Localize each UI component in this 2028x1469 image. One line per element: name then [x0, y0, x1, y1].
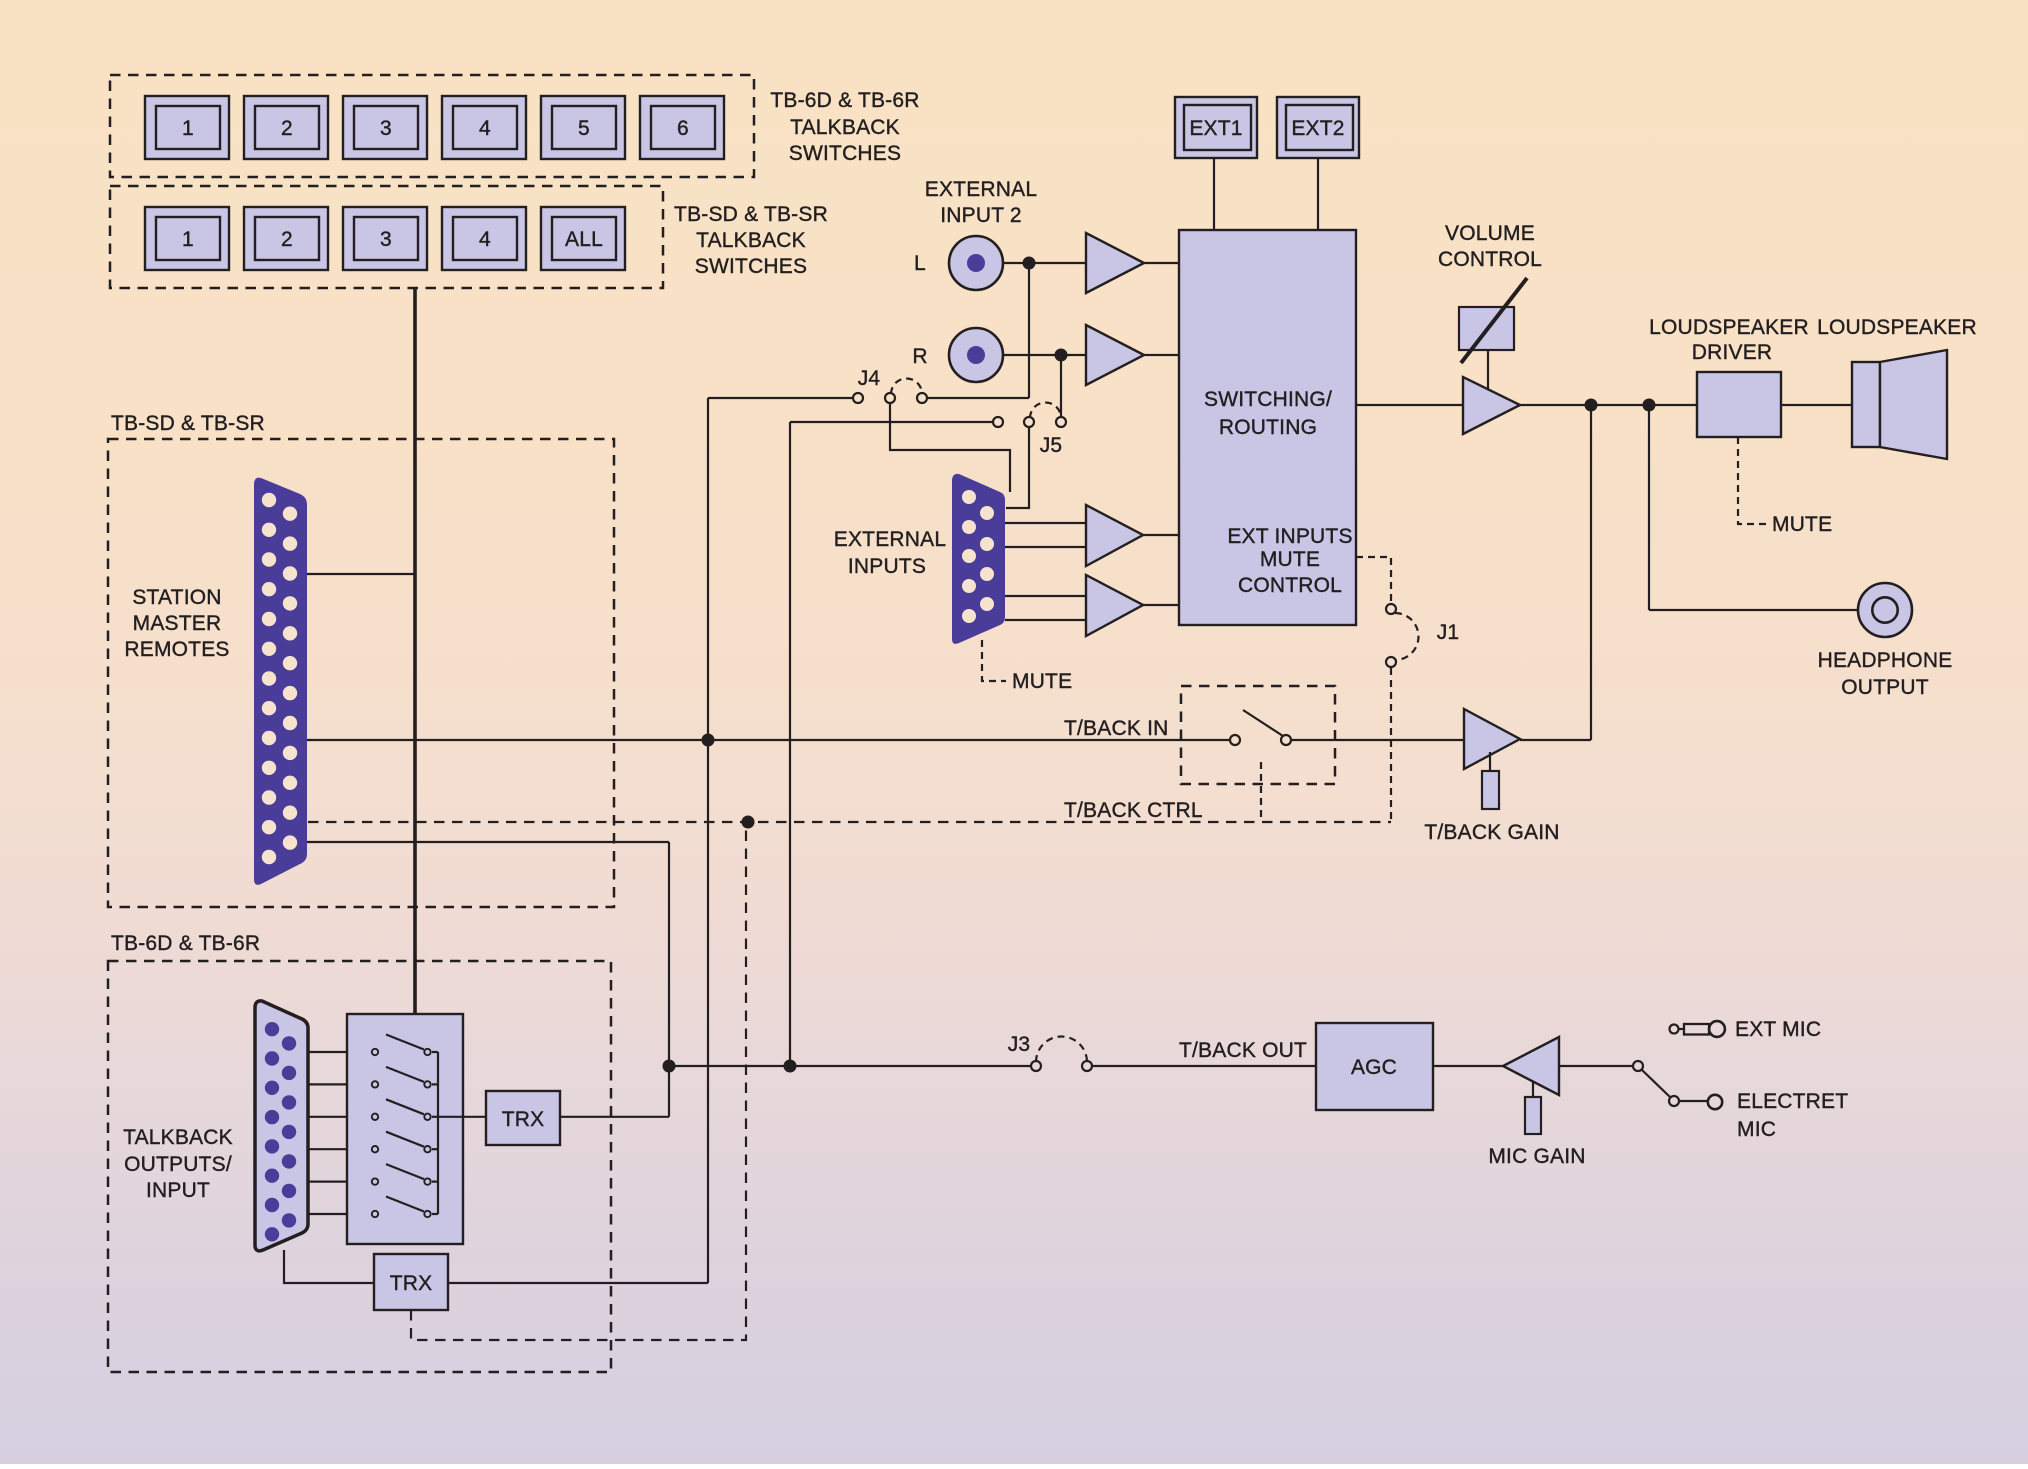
svg-text:MUTE: MUTE — [1012, 670, 1072, 693]
svg-text:EXT2: EXT2 — [1291, 117, 1344, 140]
svg-text:SWITCHES: SWITCHES — [695, 255, 807, 278]
svg-text:T/BACK CTRL: T/BACK CTRL — [1064, 799, 1203, 822]
svg-text:J4: J4 — [858, 367, 881, 390]
svg-text:MUTE: MUTE — [1772, 513, 1832, 536]
svg-text:CONTROL: CONTROL — [1438, 248, 1542, 271]
svg-text:MIC GAIN: MIC GAIN — [1488, 1145, 1585, 1168]
svg-text:4: 4 — [479, 228, 491, 251]
svg-text:LOUDSPEAKER: LOUDSPEAKER — [1817, 316, 1977, 339]
svg-text:TALKBACK: TALKBACK — [790, 116, 900, 139]
svg-text:MIC: MIC — [1737, 1118, 1776, 1141]
svg-text:TALKBACK: TALKBACK — [123, 1126, 233, 1149]
svg-text:J5: J5 — [1040, 434, 1063, 457]
svg-text:EXTERNAL: EXTERNAL — [834, 528, 946, 551]
svg-text:CONTROL: CONTROL — [1238, 574, 1342, 597]
svg-text:4: 4 — [479, 117, 491, 140]
svg-text:INPUT 2: INPUT 2 — [940, 204, 1022, 227]
svg-text:1: 1 — [182, 228, 194, 251]
svg-text:STATION: STATION — [132, 586, 221, 609]
svg-text:ELECTRET: ELECTRET — [1737, 1090, 1848, 1113]
svg-text:TB-6D & TB-6R: TB-6D & TB-6R — [111, 932, 260, 955]
svg-text:TALKBACK: TALKBACK — [696, 229, 806, 252]
svg-text:5: 5 — [578, 117, 590, 140]
svg-text:TRX: TRX — [502, 1108, 545, 1131]
svg-text:SWITCHING/: SWITCHING/ — [1204, 388, 1332, 411]
svg-text:2: 2 — [281, 228, 293, 251]
svg-text:EXT1: EXT1 — [1189, 117, 1242, 140]
svg-text:MASTER: MASTER — [133, 612, 222, 635]
svg-text:T/BACK IN: T/BACK IN — [1064, 717, 1168, 740]
svg-text:AGC: AGC — [1351, 1056, 1397, 1079]
svg-text:EXTERNAL: EXTERNAL — [925, 178, 1037, 201]
svg-text:J1: J1 — [1437, 621, 1460, 644]
svg-text:3: 3 — [380, 117, 392, 140]
svg-text:T/BACK OUT: T/BACK OUT — [1179, 1039, 1307, 1062]
svg-text:MUTE: MUTE — [1260, 548, 1320, 571]
svg-text:SWITCHES: SWITCHES — [789, 142, 901, 165]
svg-text:T/BACK GAIN: T/BACK GAIN — [1424, 821, 1559, 844]
svg-text:OUTPUTS/: OUTPUTS/ — [124, 1153, 232, 1176]
svg-text:ROUTING: ROUTING — [1219, 416, 1317, 439]
svg-text:TB-6D & TB-6R: TB-6D & TB-6R — [770, 89, 919, 112]
svg-text:J3: J3 — [1008, 1033, 1031, 1056]
svg-text:DRIVER: DRIVER — [1692, 341, 1773, 364]
svg-text:OUTPUT: OUTPUT — [1841, 676, 1929, 699]
svg-text:TB-SD & TB-SR: TB-SD & TB-SR — [111, 412, 265, 435]
svg-text:1: 1 — [182, 117, 194, 140]
svg-text:EXT INPUTS: EXT INPUTS — [1227, 525, 1352, 548]
svg-text:3: 3 — [380, 228, 392, 251]
svg-text:REMOTES: REMOTES — [124, 638, 229, 661]
svg-text:R: R — [912, 345, 927, 368]
svg-text:L: L — [914, 252, 926, 275]
svg-text:2: 2 — [281, 117, 293, 140]
svg-text:EXT MIC: EXT MIC — [1735, 1018, 1821, 1041]
svg-text:VOLUME: VOLUME — [1445, 222, 1535, 245]
svg-text:INPUT: INPUT — [146, 1179, 210, 1202]
svg-text:HEADPHONE: HEADPHONE — [1818, 649, 1953, 672]
svg-text:6: 6 — [677, 117, 689, 140]
svg-text:INPUTS: INPUTS — [848, 555, 926, 578]
svg-text:TRX: TRX — [390, 1272, 433, 1295]
svg-text:ALL: ALL — [565, 228, 603, 251]
svg-text:LOUDSPEAKER: LOUDSPEAKER — [1649, 316, 1809, 339]
svg-text:TB-SD & TB-SR: TB-SD & TB-SR — [674, 203, 828, 226]
